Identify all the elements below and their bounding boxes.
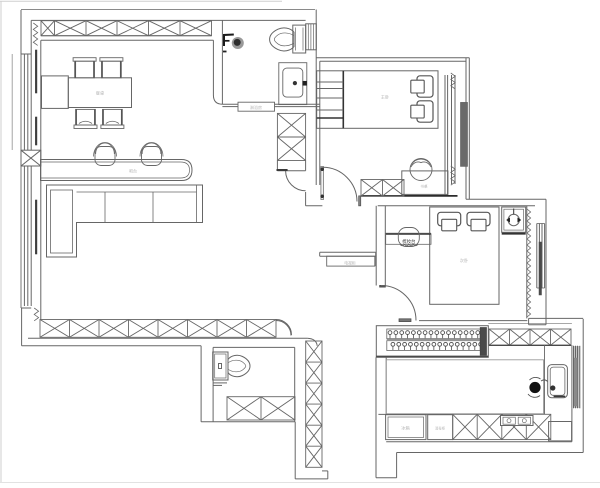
dining chair 1 xyxy=(73,58,96,78)
bedroom1 window squiggle top xyxy=(451,73,455,89)
wall corner arc to column xyxy=(307,338,317,346)
svg-text:吧台: 吧台 xyxy=(129,168,137,174)
dining table xyxy=(68,78,131,108)
desk bedroom1 xyxy=(402,171,448,195)
bottom wall outer line xyxy=(22,345,202,347)
left wall outer face xyxy=(21,10,31,308)
left wall offset line xyxy=(11,54,13,150)
fridge xyxy=(386,415,426,440)
bedroom1 window squiggle bottom xyxy=(451,166,455,185)
kitchen cabinet xyxy=(428,415,453,440)
sofa xyxy=(47,185,203,257)
bar counter xyxy=(41,160,193,181)
svg-text:梳妆台: 梳妆台 xyxy=(402,238,416,245)
bathroom1 sliding door box xyxy=(238,102,275,111)
bedroom2 window sash xyxy=(539,242,542,295)
toilet bathroom1 xyxy=(270,24,317,53)
left wall pier xyxy=(21,150,41,166)
left window lower xyxy=(24,166,31,306)
pillow 2 xyxy=(467,212,490,231)
bathroom2 outer contour xyxy=(201,422,328,479)
bar stool 1 xyxy=(94,143,117,166)
kitchen step xyxy=(376,453,397,478)
top wall hatch xyxy=(41,21,212,36)
bedroom2 top wall xyxy=(306,205,535,207)
dining chair 2 xyxy=(100,58,123,78)
step-out top edge xyxy=(529,318,584,324)
bedroom2 right window xyxy=(527,206,545,319)
stove xyxy=(501,416,534,426)
bed cushion 1 xyxy=(411,76,433,97)
bedroom1 bottom hatch band xyxy=(361,180,404,197)
left wall insulation squiggle top xyxy=(33,23,37,45)
kitchen counter front xyxy=(544,345,546,414)
svg-text:书桌: 书桌 xyxy=(420,184,428,189)
svg-text:淋浴房: 淋浴房 xyxy=(250,104,262,110)
door arc bedroom1 xyxy=(323,167,357,201)
door arc hall xyxy=(277,170,306,191)
bathroom2 top inner line xyxy=(213,346,295,348)
left wall bottom step xyxy=(21,308,31,346)
bedroom1 top wall xyxy=(316,58,469,62)
page border bottom xyxy=(0,482,600,484)
dressing stool xyxy=(398,228,419,247)
dressing table xyxy=(386,234,431,245)
bedroom2 door arc xyxy=(381,286,416,321)
bar stool 2 xyxy=(140,143,163,166)
kitchen right window xyxy=(572,345,580,408)
bed bedroom1 xyxy=(317,71,438,129)
bedroom1 right window xyxy=(445,75,455,196)
kitchen table outline xyxy=(386,360,543,414)
bed bedroom2 xyxy=(430,207,499,304)
left wall insulation squiggle bottom xyxy=(34,308,38,321)
door leaf bedroom1 xyxy=(321,167,324,200)
top wall offset line xyxy=(21,9,315,11)
bathroom1 bottom wall xyxy=(222,104,319,106)
bathroom2 door arc xyxy=(276,321,291,336)
bedroom2 left wall xyxy=(359,196,386,287)
bottom wall end arc xyxy=(276,320,292,336)
kitchen counter hatch xyxy=(453,414,551,439)
bathroom1-bedroom1 wall xyxy=(316,10,320,186)
svg-text:电视柜: 电视柜 xyxy=(344,260,356,265)
bedroom1 window sash xyxy=(461,102,468,166)
page border top xyxy=(0,0,282,2)
kitchen left wall xyxy=(376,357,386,477)
corridor wall right face xyxy=(221,20,223,104)
bottom wall rail line xyxy=(28,337,307,339)
page border left xyxy=(0,1,2,482)
toilet bathroom2 xyxy=(213,352,250,385)
bedroom2 bottom wall xyxy=(419,321,572,324)
svg-text:消毒柜: 消毒柜 xyxy=(435,426,446,431)
door post bedroom1 xyxy=(305,192,307,206)
kitchen bottom outer wall xyxy=(397,452,584,454)
dining chair 4 xyxy=(101,109,124,128)
left window upper xyxy=(24,54,31,150)
kitchen bottom inner wall xyxy=(386,441,572,443)
wardrobe with hangers xyxy=(376,326,488,358)
kitchen-bath column hatch xyxy=(306,341,322,467)
hall column hatch xyxy=(277,113,305,170)
desk chair xyxy=(410,159,432,189)
hall cabinet xyxy=(320,252,376,266)
top wall base lines xyxy=(41,36,213,41)
wall line b1-b2 east xyxy=(466,198,546,200)
top wall inner line xyxy=(31,19,305,21)
left window upper sash xyxy=(35,50,37,93)
svg-text:餐桌: 餐桌 xyxy=(96,90,105,97)
svg-text:主卧: 主卧 xyxy=(381,94,389,101)
kitchen counter top line xyxy=(378,413,452,415)
kitchen right wall below window xyxy=(571,409,573,442)
washbasin bathroom1 xyxy=(279,63,307,105)
bathroom2 bottom hatch xyxy=(227,397,295,420)
bathroom2 left wall xyxy=(201,346,213,422)
bedroom2 right wall outer xyxy=(545,199,547,318)
kitchen window sash xyxy=(574,358,577,406)
kitchen sink xyxy=(528,365,567,398)
shower head xyxy=(223,35,244,52)
top wall corner stub xyxy=(30,20,32,54)
bedroom1 right wall xyxy=(466,58,469,200)
bed cushion 2 xyxy=(411,101,433,122)
kitchen right outer wall xyxy=(582,319,584,453)
nightstand bedroom2 xyxy=(502,207,526,234)
bedroom2 door leaf xyxy=(399,319,411,322)
corner cabinet xyxy=(549,422,572,441)
pillow 1 xyxy=(438,212,461,231)
bedroom1 bottom wall dark line xyxy=(361,195,458,197)
svg-text:次卧: 次卧 xyxy=(460,257,468,264)
corridor wall left face xyxy=(213,40,222,104)
bathroom2 right wall xyxy=(294,347,296,421)
dining chair 3 xyxy=(74,109,97,128)
dining sideboard xyxy=(42,76,69,109)
bottom wall hatch xyxy=(40,320,276,338)
wardrobe-kitchen hatch band xyxy=(489,329,571,345)
left wall inner face xyxy=(40,40,42,319)
svg-text:冰箱: 冰箱 xyxy=(401,425,409,432)
left window lower sash xyxy=(35,117,37,254)
